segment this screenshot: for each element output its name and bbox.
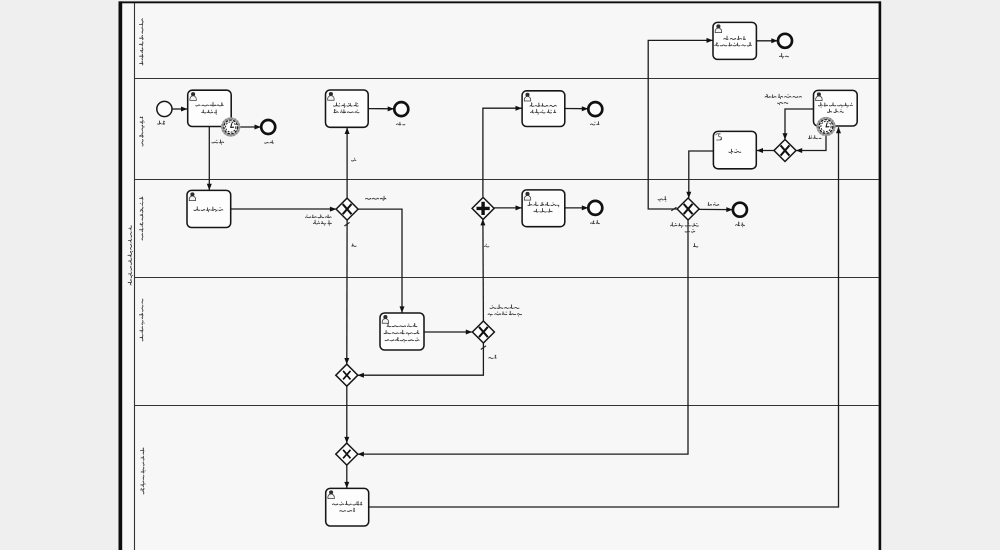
gateway G5 exclusive <box>774 140 796 162</box>
wire T5 to G6 <box>689 151 713 198</box>
wire G7 to T10 <box>346 465 348 488</box>
label پایان E6 <box>736 222 745 227</box>
lane 4 label دریافت کننده ارجاع <box>139 299 144 341</box>
task T8 اطلاع رسانی به مدیر منابع انسانی <box>522 190 565 227</box>
wire T10 to T4 <box>369 127 839 507</box>
lane 1 label کارشناس حقوق و دستمزد <box>139 19 143 65</box>
lane 5 label مسئول جذب و استخدام <box>140 448 145 494</box>
wire start to T1 <box>172 108 187 110</box>
wire T1 to T7 <box>208 127 210 190</box>
label پایان E1 <box>265 141 274 144</box>
gateway G4 exclusive merge <box>336 364 358 386</box>
end event E2 پایان <box>394 102 408 116</box>
task T9 بررسی ارجاع توسط مدیر عامل <box>380 313 424 350</box>
label آیا درخواست منابع انسانی مورد تایید است؟ <box>488 305 522 317</box>
wire G2 to T8 <box>494 207 522 209</box>
wire T2 to E2 <box>368 108 394 110</box>
pool top border <box>119 1 881 3</box>
label پایان E3 <box>591 122 599 125</box>
end event E6 پایان <box>733 203 747 217</box>
pool right border <box>879 1 882 550</box>
lane 3 label مدیر منابع انسانی <box>139 197 143 240</box>
wire G4 to G7 <box>346 386 348 443</box>
task T3 اطلاع رسانی به درخواست کننده <box>522 91 565 127</box>
task T6 اطلاع رسانی به کارشناس حقوق و دستمزد <box>713 22 756 59</box>
end event E1 پایان <box>261 120 275 134</box>
label تایمر 48 ساعت <box>212 140 224 145</box>
end event E3 پایان <box>588 102 602 116</box>
label تایید on G1-G4 <box>352 244 356 246</box>
label رد on G3-G2 <box>485 244 489 247</box>
gateway G3 exclusive آیا درخواست منابع انسانی مورد تایید است؟ <box>472 321 494 343</box>
boundary timer روز 15 on T4 <box>816 117 835 136</box>
wire G1 رد to T2 <box>346 128 348 198</box>
task T5 بررسی <box>713 131 756 168</box>
label تایید on G3-G4 <box>489 355 497 358</box>
label فرآیند درخواست منابع انسانی <box>765 94 802 105</box>
task T10 انجام جذب و ثبت مشخصات <box>326 488 369 526</box>
default flow slash on G1 bottom <box>344 222 349 226</box>
label پایان E5 <box>591 220 600 223</box>
lane divider 1 <box>135 78 879 80</box>
wire timer2 to G5 <box>796 136 826 151</box>
wire T6 to E4 <box>757 40 778 42</box>
label شروع <box>158 121 166 124</box>
task T2 اطلاع رسانی به درخواست کننده <box>326 90 369 127</box>
lane divider 4 <box>135 405 879 407</box>
wire timer1 to E1 <box>240 126 260 128</box>
lane divider 2 <box>135 179 879 181</box>
task T4 تایید جذب و اقدام شروع به کار فرد <box>814 90 858 126</box>
lane divider 3 <box>135 277 879 279</box>
default flow slash on G3 bottom <box>481 346 486 350</box>
wire G5 to T5 <box>757 150 774 152</box>
wire G3 رد to G2 <box>482 219 485 321</box>
label رد on G6-G7 <box>694 244 698 247</box>
wire T8 to E5 <box>565 207 588 209</box>
end event E4 پایان <box>778 34 792 48</box>
default flow slash on G6 left <box>671 207 676 211</box>
label آیا جذب مورد تایید است؟ <box>671 223 699 233</box>
wire G3 تایید to G4 <box>358 343 484 375</box>
label پایان E4 <box>780 53 789 58</box>
label تایید on G6-T6 <box>658 196 666 201</box>
wire G6 رد to G7 <box>358 220 688 454</box>
wire G6 انصراف to E6 <box>699 208 733 210</box>
wire G1 تایید to G4 <box>346 220 348 364</box>
gateway G7 exclusive merge <box>336 443 358 465</box>
wire T7 to G1 <box>231 208 336 210</box>
label نتیجه بررسی درخواست؟ <box>305 215 331 226</box>
start event شروع <box>157 101 172 116</box>
wire G1 to T9 <box>358 209 402 312</box>
pool label فرآیند درخواست منابع انسانی <box>128 226 133 285</box>
wire T9 to G3 <box>424 331 472 333</box>
label موافق ارجاع <box>366 196 387 201</box>
label 15 روز <box>809 136 822 139</box>
wire T4 to G5 <box>785 109 813 139</box>
label پایان E2 <box>397 122 405 125</box>
wire T3 to E3 <box>565 108 588 110</box>
task T7 بررسی درخواست <box>187 190 231 227</box>
end event E5 پایان <box>588 201 602 215</box>
pool left bar <box>119 1 123 550</box>
label رد on G1-T2 <box>352 158 356 161</box>
boundary timer تایمر 48 ساعت on T1 <box>221 117 240 136</box>
lane 2 label درخواست کننده <box>139 117 144 146</box>
gateway G6 exclusive آیا جذب مورد تایید است؟ <box>677 198 699 220</box>
pool label column separator <box>134 3 136 550</box>
task T1 تکمیل فرم درخواست منابع انسانی <box>188 90 232 126</box>
pool body fill <box>122 3 879 550</box>
label انصراف <box>708 202 719 205</box>
wire G6 تایید to T6 <box>648 40 712 209</box>
gateway G1 exclusive نتیجه بررسی درخواست؟ <box>336 198 358 220</box>
wire G2 to T3 <box>483 108 522 197</box>
gateway G2 parallel <box>472 197 494 219</box>
